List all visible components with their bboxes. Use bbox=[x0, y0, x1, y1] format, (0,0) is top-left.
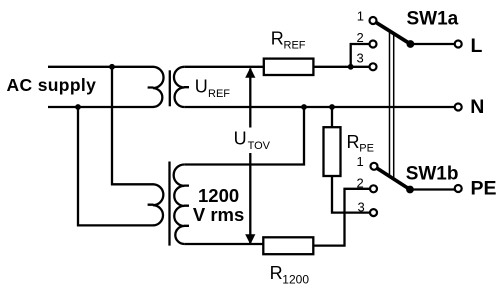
switch SW1b pole dot bbox=[406, 186, 414, 194]
terminal SW1a-1 bbox=[370, 17, 377, 24]
wire dropper from AC bottom to lower primary bottom bbox=[78, 107, 153, 225]
switch SW1a pole dot bbox=[407, 40, 415, 48]
junction dot AC bottom bbox=[75, 104, 81, 110]
resistor R_1200 body bbox=[263, 237, 313, 254]
switch SW1a blade bbox=[376, 22, 410, 44]
arrowhead U_TOV down bbox=[245, 234, 255, 244]
arrowhead U_TOV up bbox=[245, 68, 255, 78]
svg-text:PE: PE bbox=[471, 177, 497, 199]
junction dot R_REF node bbox=[348, 64, 354, 70]
terminal SW1a-2 bbox=[370, 41, 377, 48]
svg-text:3: 3 bbox=[358, 200, 365, 215]
transformer T1 secondary winding U_REF bbox=[174, 67, 189, 107]
wire SW1b pole to PE bbox=[410, 188, 455, 190]
wire SW1a pole to L bbox=[410, 43, 454, 45]
svg-text:SW1a: SW1a bbox=[407, 8, 459, 29]
svg-text:1: 1 bbox=[357, 154, 364, 169]
wire AC top bbox=[48, 66, 153, 68]
wire R_PE top bbox=[331, 107, 333, 127]
transformer T2 core bbox=[168, 162, 170, 246]
svg-text:L: L bbox=[471, 35, 483, 57]
svg-text:V rms: V rms bbox=[193, 204, 244, 225]
terminal PE bbox=[455, 185, 462, 192]
svg-text:1200: 1200 bbox=[198, 185, 239, 206]
switch SW1b blade bbox=[377, 168, 410, 189]
svg-text:REF: REF bbox=[208, 88, 230, 100]
resistor R_PE body bbox=[324, 127, 341, 176]
svg-text:N: N bbox=[470, 96, 484, 118]
svg-text:1: 1 bbox=[357, 9, 364, 24]
transformer T2 secondary winding 1200 V rms bbox=[174, 165, 189, 245]
transformer T1 core bbox=[169, 70, 171, 106]
terminal N bbox=[455, 104, 462, 111]
wire N dropper to lower secondary top bbox=[184, 107, 304, 165]
svg-text:R: R bbox=[271, 29, 284, 49]
wire U_TOV arrow lower segment bbox=[249, 153, 251, 243]
svg-text:SW1b: SW1b bbox=[406, 164, 459, 185]
wire R_REF to SW1a terminal 3 bbox=[313, 66, 369, 68]
svg-text:U: U bbox=[195, 76, 208, 96]
svg-text:U: U bbox=[234, 129, 247, 149]
svg-text:TOV: TOV bbox=[248, 140, 271, 152]
transformer T2 primary winding bbox=[148, 184, 164, 225]
wire R_PE bottom to SW1b terminal 3 bbox=[332, 176, 370, 213]
terminal SW1a-3 bbox=[370, 63, 377, 70]
transformer T1 primary winding bbox=[148, 67, 164, 107]
wire lower secondary bottom to R_1200 bbox=[184, 243, 263, 245]
wire SW1b terminal 2 to R_1200 bbox=[313, 189, 370, 246]
svg-text:R: R bbox=[347, 132, 360, 152]
junction dot AC top bbox=[109, 64, 115, 70]
wire dropper from AC top to lower primary bbox=[112, 67, 153, 185]
terminal SW1b-2 bbox=[370, 185, 377, 192]
svg-text:2: 2 bbox=[357, 30, 364, 45]
svg-text:R: R bbox=[270, 263, 283, 283]
terminal SW1b-3 bbox=[370, 209, 377, 216]
mechanical link SW1a-SW1b bbox=[390, 31, 394, 179]
wire N line bbox=[184, 106, 454, 108]
terminal L bbox=[455, 41, 462, 48]
junction dot N line secondary bbox=[301, 104, 307, 110]
svg-text:2: 2 bbox=[357, 176, 364, 191]
svg-text:3: 3 bbox=[357, 51, 364, 66]
wire AC bottom bbox=[48, 106, 153, 108]
wire U_TOV arrow upper segment bbox=[249, 69, 251, 128]
svg-text:AC supply: AC supply bbox=[7, 75, 97, 95]
resistor R_REF body bbox=[264, 59, 314, 75]
svg-text:PE: PE bbox=[359, 142, 374, 154]
junction dot N line R_PE bbox=[329, 104, 335, 110]
svg-text:1200: 1200 bbox=[282, 273, 309, 287]
terminal SW1b-1 bbox=[371, 163, 378, 170]
wire branch to SW1a terminal 2 bbox=[351, 44, 370, 67]
wire secondary top to R_REF bbox=[184, 66, 263, 68]
svg-text:REF: REF bbox=[284, 40, 306, 52]
